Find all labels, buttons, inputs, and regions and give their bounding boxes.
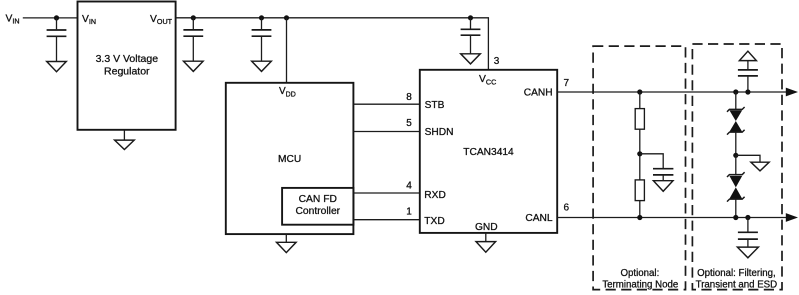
pin 8 label bbox=[406, 92, 412, 103]
wire CANH bbox=[557, 91, 786, 93]
svg-text:Optional:: Optional: bbox=[621, 268, 660, 279]
svg-text:4: 4 bbox=[406, 181, 412, 192]
node junction CANL TVS bbox=[733, 215, 738, 220]
pin 5 label bbox=[406, 118, 412, 129]
capacitor C7 (CANL filter) bbox=[738, 218, 758, 248]
ground (C4) bbox=[461, 54, 481, 64]
svg-text:Regulator: Regulator bbox=[104, 65, 150, 77]
pin 3 label bbox=[494, 56, 500, 67]
node junction CANH terminating bbox=[637, 89, 642, 94]
svg-text:6: 6 bbox=[564, 203, 570, 214]
node junction TVS midpoint bbox=[733, 153, 738, 158]
wire VOUT rail to VCC bbox=[176, 18, 489, 70]
svg-text:Transient and ESD: Transient and ESD bbox=[696, 279, 778, 290]
ground arrow (TVS midpoint) bbox=[736, 155, 769, 171]
svg-text:7: 7 bbox=[564, 78, 570, 89]
wire VIN input bbox=[23, 17, 78, 19]
svg-text:Optional: Filtering,: Optional: Filtering, bbox=[697, 268, 776, 279]
node junction CANL filter cap bbox=[745, 215, 750, 220]
capacitor C3 bbox=[252, 18, 272, 61]
ground (regulator) bbox=[115, 130, 135, 150]
node junction split termination bbox=[637, 151, 642, 156]
svg-text:CANL: CANL bbox=[525, 213, 553, 224]
svg-text:5: 5 bbox=[406, 118, 412, 129]
node junction C3 bbox=[259, 15, 264, 20]
node junction VOUT bbox=[191, 15, 196, 20]
resistor R2 (termination lower) bbox=[635, 180, 644, 218]
pin 4 label bbox=[406, 181, 412, 192]
ground (TCAN3414 GND) bbox=[476, 233, 496, 252]
svg-text:Terminating Node: Terminating Node bbox=[602, 279, 678, 290]
optional filtering dashed box bbox=[692, 44, 782, 290]
CANH bus arrow bbox=[786, 88, 798, 97]
wire split cap branch bbox=[640, 154, 663, 169]
svg-text:TXD: TXD bbox=[424, 216, 444, 227]
TVS diode D1 (CANH) bbox=[727, 92, 745, 155]
svg-text:8: 8 bbox=[406, 92, 412, 103]
svg-text:3: 3 bbox=[494, 56, 500, 67]
ground (C1) bbox=[47, 62, 67, 72]
node junction CANH TVS bbox=[733, 89, 738, 94]
pin 1 label bbox=[406, 207, 412, 218]
pin 6 label bbox=[564, 203, 570, 214]
pin 7 label bbox=[564, 78, 570, 89]
ground (C7) bbox=[737, 247, 758, 258]
CAN FD controller block bbox=[282, 188, 353, 225]
node junction on VIN wire bbox=[54, 15, 59, 20]
wire VDD bbox=[286, 18, 288, 83]
CANL bus arrow bbox=[786, 213, 798, 222]
wire SHDN bbox=[353, 131, 419, 133]
ground (C3) bbox=[252, 61, 272, 71]
ground (C5) bbox=[653, 181, 673, 192]
capacitor C6 (CANH filter, chassis) bbox=[738, 51, 758, 92]
capacitor C2 bbox=[183, 18, 203, 61]
svg-text:SHDN: SHDN bbox=[425, 127, 454, 138]
transceiver TCAN3414 block bbox=[420, 70, 557, 233]
svg-text:RXD: RXD bbox=[424, 190, 446, 201]
svg-text:CAN FD: CAN FD bbox=[299, 194, 337, 205]
svg-text:1: 1 bbox=[406, 207, 412, 218]
TVS diode D2 (CANL) bbox=[727, 155, 745, 217]
node junction VDD branch bbox=[284, 15, 289, 20]
node junction CANH filter cap bbox=[745, 89, 750, 94]
optional terminating node dashed box bbox=[593, 46, 685, 290]
capacitor C4 (VCC bypass) bbox=[461, 18, 481, 54]
capacitor C1 (VIN bypass) bbox=[47, 18, 67, 62]
net label VIN bbox=[6, 13, 20, 25]
resistor R1 (termination upper) bbox=[635, 92, 644, 180]
svg-text:GND: GND bbox=[475, 222, 498, 233]
capacitor C5 (split termination) bbox=[653, 169, 673, 181]
node junction CANL terminating bbox=[637, 215, 642, 220]
ground (MCU) bbox=[277, 234, 297, 253]
svg-text:CANH: CANH bbox=[524, 88, 553, 99]
node junction C4 bbox=[468, 15, 473, 20]
wire TXD bbox=[353, 219, 419, 221]
svg-text:3.3 V Voltage: 3.3 V Voltage bbox=[96, 53, 159, 65]
wire STB bbox=[353, 103, 419, 105]
svg-text:TCAN3414: TCAN3414 bbox=[463, 147, 514, 158]
wire RXD bbox=[353, 192, 419, 194]
svg-text:STB: STB bbox=[425, 100, 445, 111]
MCU block bbox=[226, 83, 354, 234]
ground (C2) bbox=[184, 61, 204, 71]
svg-text:Controller: Controller bbox=[295, 206, 340, 217]
svg-text:MCU: MCU bbox=[278, 154, 301, 165]
3.3 V voltage regulator block bbox=[78, 2, 176, 130]
wire CANL bbox=[557, 217, 786, 219]
